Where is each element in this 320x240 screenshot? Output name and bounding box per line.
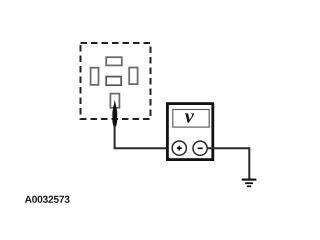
test probe <box>112 100 117 127</box>
voltmeter display <box>173 110 209 128</box>
- sign <box>198 147 203 149</box>
pin right <box>129 68 137 85</box>
ground symbol <box>242 180 257 187</box>
wire: probe to voltmeter + terminal <box>115 125 173 149</box>
voltmeter U1 body <box>167 104 212 160</box>
voltmeter V label <box>185 113 194 122</box>
wire: - terminal to ground <box>207 147 249 179</box>
pin center <box>106 77 121 86</box>
+ terminal <box>172 141 186 155</box>
figure label A0032573 <box>25 196 70 203</box>
pin bottom (probed pin) <box>110 94 119 108</box>
- terminal <box>193 141 207 155</box>
+ sign <box>177 146 182 151</box>
pin top <box>106 57 122 65</box>
relay connector outline (dashed box) <box>81 43 151 119</box>
pin left <box>91 68 99 85</box>
